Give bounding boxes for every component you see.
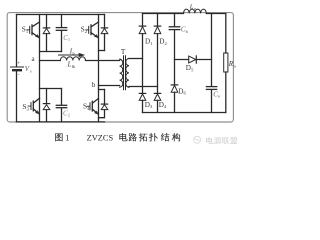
capacitor Co	[211, 14, 213, 87]
svg-text:6: 6	[184, 91, 187, 96]
battery Vs	[16, 15, 18, 67]
diode D5	[189, 56, 196, 63]
diode D3	[139, 92, 145, 94]
transistor S2	[91, 22, 98, 27]
svg-text:b: b	[186, 29, 189, 34]
diode D2	[154, 25, 160, 27]
diode DS1 (antiparallel of S1)	[46, 15, 48, 28]
svg-text:1: 1	[68, 37, 71, 42]
wire: bridge right leg	[98, 15, 100, 122]
transistor S3	[34, 98, 40, 103]
capacitor C2	[61, 89, 63, 105]
wire: node a to transformer	[40, 60, 61, 62]
diode DS4 (antiparallel of S4)	[104, 90, 106, 104]
rectifier leg2	[157, 14, 159, 113]
wire: secondary top to rectifier leg1	[129, 58, 143, 60]
capacitor C1	[61, 15, 63, 28]
svg-text:a: a	[32, 55, 36, 63]
svg-text:o: o	[194, 6, 197, 11]
wire: secondary bottom to rectifier leg2	[129, 86, 158, 88]
svg-text:o: o	[234, 63, 237, 68]
diode DS3 (antiparallel of S3)	[46, 89, 48, 104]
svg-text:2: 2	[68, 113, 71, 118]
svg-text:5: 5	[191, 67, 194, 72]
watermark text: 电源联盟	[206, 137, 213, 144]
wire: bridge left leg	[39, 15, 41, 122]
transformer T primary winding	[120, 59, 123, 87]
watermark icon	[194, 136, 201, 143]
wire: primary bottom rail	[17, 121, 105, 123]
resistor RL	[225, 14, 227, 54]
wire: primary top rail	[17, 14, 105, 16]
wire: secondary bottom rail	[143, 112, 226, 114]
diode DS2 (antiparallel of S2)	[104, 15, 106, 28]
current arrow Ip	[59, 54, 80, 56]
caption text: 电路拓扑结构	[119, 133, 127, 141]
svg-text:s: s	[30, 68, 32, 73]
wire: S2 cell bottom stub	[99, 50, 105, 52]
transformer T secondary winding	[126, 59, 129, 88]
svg-text:+: +	[17, 61, 20, 67]
wire: S3 cell top stub	[40, 88, 62, 90]
wire: node b to transformer	[99, 85, 120, 87]
svg-text:b: b	[92, 81, 96, 89]
svg-text:ZVZCS: ZVZCS	[87, 133, 114, 142]
svg-text:lk: lk	[72, 64, 76, 69]
svg-text:3: 3	[27, 107, 30, 112]
transistor S1	[32, 22, 39, 27]
rectifier leg1	[142, 14, 144, 113]
diode D1	[139, 25, 145, 27]
wire: S1 cell bottom stub	[40, 51, 62, 53]
wire: D5 branch	[175, 59, 212, 61]
svg-text:1: 1	[150, 41, 153, 46]
transformer T core	[123, 56, 125, 90]
svg-text:4: 4	[164, 104, 167, 109]
wire: secondary top rail	[143, 13, 184, 15]
inductor Lf	[183, 9, 206, 13]
diode D4	[154, 92, 160, 94]
svg-text:3: 3	[150, 104, 153, 109]
svg-text:o: o	[218, 94, 221, 99]
transistor S4	[93, 98, 99, 103]
svg-text:T: T	[121, 47, 126, 56]
diode D6	[174, 60, 176, 85]
caption text: 图	[55, 133, 62, 141]
svg-text:2: 2	[165, 41, 168, 46]
wire: S4 cell top stub	[99, 89, 105, 91]
svg-text:-: -	[18, 72, 20, 78]
inductor Llk	[60, 57, 85, 61]
capacitor Cb	[174, 14, 176, 27]
svg-text:1: 1	[65, 133, 69, 142]
